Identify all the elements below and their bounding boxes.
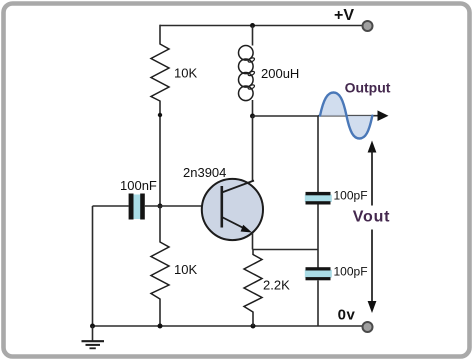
label +V: [334, 7, 354, 24]
node collector junction: [250, 114, 255, 119]
wire top rail: [160, 25, 363, 27]
label 100pF C2: [334, 189, 368, 203]
resistor R1: [151, 44, 169, 101]
wire left branch mid: [159, 101, 161, 207]
svg-text:10K: 10K: [174, 262, 197, 277]
resistor R2: [151, 242, 169, 299]
resistor R3 2.2K: [244, 250, 262, 327]
terminal +V: [363, 21, 373, 31]
wire R2 bottom lead: [159, 299, 161, 327]
capacitor C1 100nF: [129, 194, 145, 220]
wire right rail bottom segment: [317, 280, 319, 326]
svg-text:100nF: 100nF: [120, 178, 157, 193]
label 2n3904: [183, 165, 226, 180]
label 100nF: [120, 178, 157, 193]
node base junction: [158, 204, 163, 209]
label 10K R1: [174, 66, 197, 81]
wire R2 top lead: [159, 206, 161, 243]
label 0v: [338, 307, 356, 324]
label 2.2K: [263, 278, 290, 293]
svg-text:100pF: 100pF: [334, 189, 368, 203]
wire emitter: [252, 233, 254, 250]
svg-text:100pF: 100pF: [334, 265, 368, 279]
label 100pF C3: [334, 265, 368, 279]
wire collector node to right rail: [253, 115, 319, 117]
wire bottom rail: [93, 325, 363, 327]
node A: [158, 113, 162, 117]
inductor L1 200uH: [239, 26, 256, 117]
node junction top inductor: [250, 23, 255, 28]
label 10K R2: [174, 262, 197, 277]
output sine wave: [320, 93, 372, 139]
output axis arrow: [318, 110, 389, 121]
wire right rail top segment: [317, 116, 319, 192]
wire base: [145, 205, 222, 207]
svg-text:2n3904: 2n3904: [183, 165, 226, 180]
wire left down branch: [92, 206, 94, 326]
wire emitter node to right rail: [253, 249, 319, 251]
wire R1 top lead: [159, 25, 161, 45]
svg-text:+V: +V: [334, 7, 354, 24]
svg-text:0v: 0v: [338, 307, 356, 324]
Vout arrow up: [368, 141, 377, 206]
svg-text:200uH: 200uH: [261, 66, 299, 81]
label Vout: [353, 209, 391, 226]
Vout arrow down: [368, 230, 377, 314]
wire right rail mid segment: [317, 205, 319, 268]
capacitor C3 100pF: [305, 267, 332, 280]
svg-text:2.2K: 2.2K: [263, 278, 290, 293]
svg-text:Vout: Vout: [353, 209, 391, 226]
node bottom R3: [251, 324, 256, 329]
svg-text:Output: Output: [345, 80, 391, 96]
capacitor C2 100pF: [305, 192, 332, 205]
node bottom left: [90, 324, 95, 329]
label Output: [345, 80, 391, 96]
transistor Q1 2n3904: [202, 179, 263, 240]
terminal 0v: [363, 322, 373, 332]
node bottom R2: [158, 324, 163, 329]
wire C1 left lead: [93, 205, 129, 207]
label 200uH: [261, 66, 299, 81]
svg-text:10K: 10K: [174, 66, 197, 81]
ground: [82, 326, 105, 348]
wire collector: [252, 116, 254, 182]
